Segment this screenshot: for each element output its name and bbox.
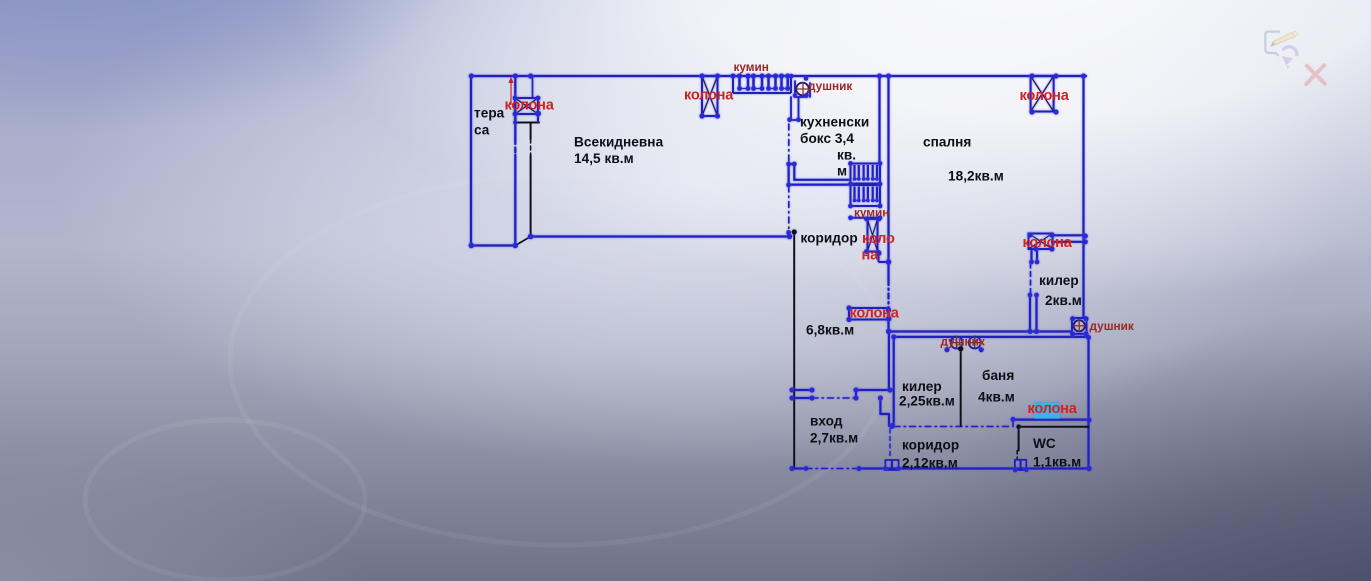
svg-text:са: са	[474, 123, 490, 138]
faint background rings	[85, 175, 890, 580]
svg-text:14,5 кв.м: 14,5 кв.м	[574, 151, 634, 166]
corridor2 north wall	[894, 426, 1011, 428]
pencil	[1270, 31, 1298, 47]
svg-text:коридор: коридор	[902, 438, 959, 453]
killer2 (2kv.m) walls	[1030, 263, 1032, 294]
svg-text:WC: WC	[1033, 436, 1056, 451]
bath divider black	[960, 349, 962, 426]
column C5 (bedroom bottom)	[1029, 234, 1053, 250]
dushnik-A box	[795, 81, 810, 97]
svg-text:кв.: кв.	[837, 147, 856, 162]
kitchen south wall double	[794, 179, 850, 181]
kitchen right wall	[878, 76, 880, 163]
corridor west black wall	[793, 232, 795, 469]
bath north wall	[894, 336, 1087, 338]
column C1 (terrace)	[515, 98, 538, 114]
svg-text:бокс 3,4: бокс 3,4	[800, 131, 854, 146]
living room bottom wall	[531, 235, 790, 237]
bedroom east wall	[1082, 76, 1084, 318]
svg-text:душник: душник	[941, 335, 985, 349]
red X	[1306, 65, 1325, 84]
entrance door bars	[792, 389, 812, 391]
svg-text:колона: колона	[1023, 235, 1073, 251]
column C6 (corridor small box)	[849, 308, 889, 320]
entrance divider	[856, 389, 890, 391]
svg-text:колона: колона	[1020, 88, 1070, 104]
kumin A on top wall	[733, 76, 791, 93]
dushnik-b box	[1072, 318, 1087, 334]
terrace divider right black line	[530, 123, 532, 140]
terrace divider left line	[514, 76, 516, 139]
bedroom south wall	[889, 330, 1072, 332]
svg-text:килер: килер	[1039, 273, 1079, 288]
top wall	[471, 75, 1086, 77]
svg-text:кумин: кумин	[734, 60, 769, 74]
bath/wc east wall	[1087, 337, 1089, 469]
svg-text:1,1кв.м: 1,1кв.м	[1033, 455, 1081, 470]
kumin B bottom tick	[851, 217, 881, 219]
svg-text:2,12кв.м: 2,12кв.м	[902, 456, 958, 471]
svg-text:вход: вход	[810, 414, 843, 429]
left outer wall (terrace)	[470, 76, 472, 246]
svg-text:м: м	[837, 164, 847, 179]
document icon	[1265, 32, 1280, 56]
svg-text:2кв.м: 2кв.м	[1045, 293, 1082, 308]
terrace bottom wall	[471, 244, 515, 246]
svg-text:Всекидневна: Всекидневна	[574, 135, 664, 150]
svg-text:колона: колона	[1028, 401, 1078, 417]
svg-text:кухненски: кухненски	[800, 115, 869, 130]
column C4 (corridor, under kumin)	[868, 219, 878, 252]
svg-text:колона: колона	[505, 98, 555, 114]
wc west black line	[1018, 427, 1020, 451]
svg-text:коло: коло	[862, 231, 895, 247]
purple curved arrow	[1282, 47, 1297, 69]
svg-text:колона: колона	[850, 306, 900, 322]
killer2.25 left double wall	[888, 332, 890, 391]
bottom wall	[792, 467, 806, 469]
svg-text:тера: тера	[474, 106, 505, 121]
svg-text:4кв.м: 4кв.м	[978, 390, 1015, 405]
kitchen west dash-dot boundary	[788, 124, 790, 232]
bedroom left / corridor right wall	[887, 76, 889, 280]
column5 double lines to east wall	[1052, 234, 1085, 236]
column C3 (bedroom top)	[1031, 76, 1054, 112]
svg-text:баня: баня	[982, 368, 1014, 383]
door swing dash corridor2	[889, 429, 891, 459]
svg-text:душник: душник	[808, 79, 852, 93]
svg-text:колона: колона	[684, 88, 734, 104]
svg-text:коридор: коридор	[801, 231, 858, 246]
column1 black bottom tick	[516, 122, 539, 124]
svg-text:2,25кв.м: 2,25кв.м	[899, 394, 955, 409]
svg-text:18,2кв.м: 18,2кв.м	[948, 169, 1004, 184]
svg-text:2,7кв.м: 2,7кв.м	[810, 431, 858, 446]
terrace divider right line upper	[532, 76, 534, 98]
diagonal join terrace/living	[515, 237, 530, 246]
svg-text:килер: килер	[902, 379, 942, 394]
svg-text:на: на	[862, 248, 880, 264]
wc top black wall	[1019, 426, 1089, 428]
svg-text:кумин: кумин	[854, 206, 889, 220]
column C7 (bath, cyan)	[1034, 403, 1060, 419]
kumin B boxes on kitchen right wall	[851, 164, 881, 184]
svg-text:спалня: спалня	[923, 135, 971, 150]
svg-text:6,8кв.м: 6,8кв.м	[806, 323, 854, 338]
svg-text:душник: душник	[1090, 319, 1134, 333]
column C2 (top wall)	[702, 76, 718, 116]
